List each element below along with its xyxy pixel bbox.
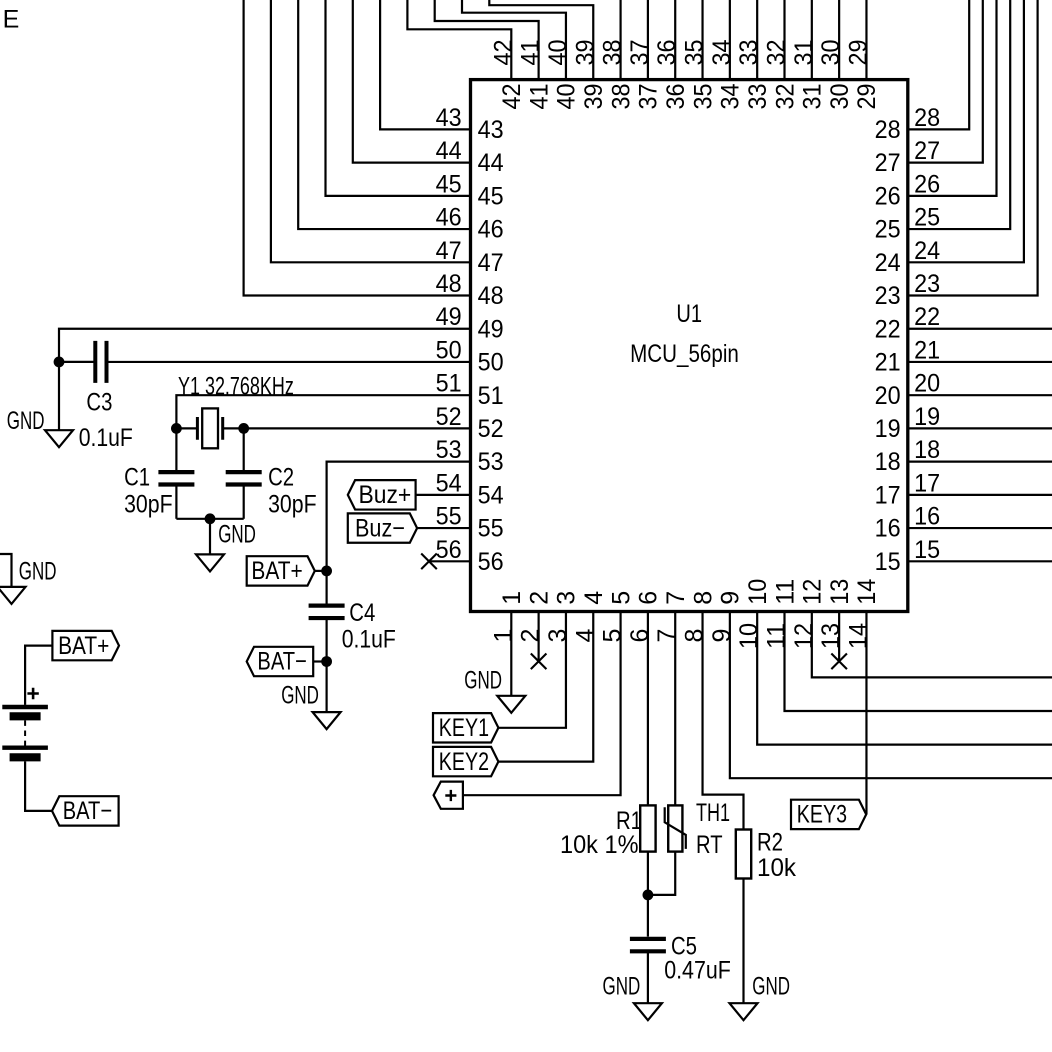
wire pin 19 to right edge [908,427,1052,429]
pin 23 number [914,270,940,298]
wire Y1 right to C2 [243,428,245,472]
pin 31 number [790,40,818,66]
resistor TH1 body [668,805,682,851]
pin 47 number [436,237,462,265]
pin 21 name [875,349,901,377]
pin 11 name [771,579,799,605]
wire BAT- flag to junction [313,660,326,662]
pin 46 number [436,204,462,232]
wire C1 to ground rail [175,485,177,519]
pin 22 number [914,303,940,331]
label R1 reference [616,807,642,835]
wire pin 1 to ground [510,612,512,696]
svg-text:55: 55 [436,503,462,531]
pin 17 name [875,481,901,509]
wire C5 to ground [647,952,649,1004]
svg-text:7: 7 [662,591,690,605]
IC U1 MCU_56pin body [471,80,908,612]
pin 1 name [498,591,526,605]
wire pin 44 to top edge [353,0,471,163]
battery plus sign [27,688,38,699]
svg-text:KEY1: KEY1 [439,714,489,742]
svg-text:23: 23 [914,270,940,298]
ground GND at R2 [730,973,791,1021]
wire pin 26 to top edge [908,0,997,196]
label C3 reference [86,388,112,416]
svg-text:26: 26 [914,170,940,198]
wire pin 49 to node C3/GND [59,329,471,362]
svg-text:25: 25 [875,216,901,244]
svg-text:48: 48 [478,282,504,310]
pin 12 number [790,623,818,649]
svg-text:10: 10 [744,579,772,605]
svg-text:42: 42 [498,84,526,110]
svg-text:16: 16 [875,515,901,543]
wire pin 9 to right edge [730,612,1052,779]
pin 50 name [478,349,504,377]
pin 18 number [914,436,940,464]
label C5 reference [671,933,697,961]
wire pin 35 to top edge [701,0,703,80]
svg-text:39: 39 [580,84,608,110]
label C4 reference [349,599,375,627]
ground GND at C5 [603,973,662,1021]
svg-text:C3: C3 [86,388,112,416]
svg-text:47: 47 [436,237,462,265]
pin 28 number [914,104,940,132]
pin 11 number [763,623,791,649]
svg-text:52: 52 [478,415,504,443]
pin 12 name [799,579,827,605]
svg-text:19: 19 [875,415,901,443]
pin 16 name [875,515,901,543]
svg-text:28: 28 [914,104,940,132]
junction Y1 left / C1 [171,423,182,434]
ground GND at C4 [281,682,340,730]
svg-text:32: 32 [763,40,791,66]
wire pin 52 to Y1 right [244,427,471,429]
wire pin 22 to right edge [908,328,1052,330]
svg-text:51: 51 [478,382,504,410]
pin 43 number [436,104,462,132]
wire C2 to ground rail [243,485,245,519]
battery cell stack [2,707,48,757]
pin 17 number [914,469,940,497]
svg-text:49: 49 [436,303,462,331]
svg-text:16: 16 [914,503,940,531]
wire pin 54 to Buz+ [416,494,471,496]
pin 13 number [817,623,845,649]
svg-text:11: 11 [771,579,799,605]
svg-text:6: 6 [635,591,663,605]
pin 55 name [478,515,504,543]
wire pin 51 to Y1 left [176,395,470,428]
svg-text:GND: GND [281,682,319,710]
label U1 reference [676,300,702,328]
ground GND at C1/C2 [196,521,256,572]
pin 8 name [689,591,717,605]
wire pin 36 to top edge [674,0,676,80]
capacitor C4 plates [309,606,345,618]
pin 33 name [744,84,772,110]
wire pin 20 to right edge [908,394,1052,396]
pin 3 number [544,629,572,643]
svg-text:29: 29 [853,84,881,110]
pin 19 number [914,403,940,431]
svg-text:0.1uF: 0.1uF [342,625,396,653]
svg-text:14: 14 [853,579,881,605]
svg-text:GND: GND [464,667,502,695]
ground GND at pin 1 [464,667,525,713]
pin 2 number [517,629,545,643]
resistor R1 body [640,805,655,851]
svg-text:20: 20 [875,382,901,410]
svg-text:40: 40 [544,40,572,66]
junction BAT- / C4 / GND [321,656,332,667]
label TH1 reference [696,799,730,827]
wire pin 13 stub [838,612,840,662]
wire junction to C5 [647,895,649,937]
wire C1/C2 ground rail [176,518,243,520]
svg-text:21: 21 [875,349,901,377]
global label KEY2 [433,747,498,776]
pin 37 name [635,84,663,110]
pin 54 number [436,469,462,497]
label C1 value 30pF [124,491,173,519]
svg-text:12: 12 [799,579,827,605]
svg-text:38: 38 [607,84,635,110]
svg-text:4: 4 [571,629,599,643]
pin 1 number [489,629,517,643]
svg-text:RT: RT [696,831,723,859]
svg-text:MCU_56pin: MCU_56pin [630,340,739,368]
svg-text:1: 1 [498,591,526,605]
wire pin 29 to top edge [865,0,867,80]
global label KEY3 [791,800,866,829]
global label Buz- [348,513,417,542]
pin 48 name [478,282,504,310]
pin 30 number [817,40,845,66]
pin 26 name [875,182,901,210]
svg-text:39: 39 [571,40,599,66]
wire pin 30 to top edge [838,0,840,80]
wire pin 41 to top edge [435,0,539,80]
wire pin 33 to top edge [756,0,758,80]
ground GND at sheet edge [0,557,57,604]
svg-text:11: 11 [763,623,791,649]
label R1 value 10k 1% [560,831,639,859]
pin 8 number [681,629,709,643]
svg-text:54: 54 [436,469,462,497]
pin 39 number [571,40,599,66]
svg-text:GND: GND [7,407,45,435]
pin 26 number [914,170,940,198]
pin 29 number [844,40,872,66]
svg-text:36: 36 [662,84,690,110]
wire junction to C4 [326,571,328,606]
svg-text:45: 45 [436,170,462,198]
svg-text:KEY2: KEY2 [439,748,489,776]
svg-text:2: 2 [525,591,553,605]
svg-text:52: 52 [436,403,462,431]
wire pin 46 to top edge [298,0,470,229]
svg-text:41: 41 [517,40,545,66]
svg-text:23: 23 [875,282,901,310]
pin 4 number [571,629,599,643]
pin 52 number [436,403,462,431]
svg-text:BAT+: BAT+ [251,557,302,585]
svg-text:51: 51 [436,370,462,398]
svg-text:37: 37 [635,84,663,110]
wire pin 7 to TH1 [674,612,676,806]
wire Y1 left to C1 [175,428,177,472]
junction C1/C2 ground [205,513,216,524]
svg-text:28: 28 [875,116,901,144]
svg-text:40: 40 [553,84,581,110]
pin 16 number [914,503,940,531]
wire R1 to node C5 [647,852,649,895]
wire pin 15 to right edge [908,560,1052,562]
svg-text:C4: C4 [349,599,375,627]
svg-text:30: 30 [817,40,845,66]
sheet frame row label E [3,5,20,33]
wire pin 38 to top edge [619,0,621,80]
svg-text:29: 29 [844,40,872,66]
svg-text:13: 13 [826,579,854,605]
global label KEY1 [433,713,498,742]
svg-text:15: 15 [875,548,901,576]
pin 39 name [580,84,608,110]
wire pin 55 to Buz- [417,527,471,529]
svg-text:10: 10 [735,623,763,649]
svg-text:TH1: TH1 [696,799,730,827]
ground GND at C3 [7,407,73,447]
pin 55 number [436,503,462,531]
wire pin 17 to right edge [908,494,1052,496]
pin 40 name [553,84,581,110]
pin 14 name [853,579,881,605]
svg-text:24: 24 [914,237,940,265]
wire pin 37 to top edge [647,0,649,80]
svg-text:42: 42 [489,40,517,66]
wire junction to ground [326,662,328,713]
pin 41 number [517,40,545,66]
crystal Y1 [176,408,243,448]
svg-text:56: 56 [436,536,462,564]
svg-text:C1: C1 [124,463,150,491]
pin 34 name [717,83,745,109]
svg-text:54: 54 [478,481,504,509]
svg-text:48: 48 [436,270,462,298]
pin 51 number [436,370,462,398]
capacitor C2 plates [226,472,262,484]
pin 29 name [853,84,881,110]
pin 45 name [478,182,504,210]
label C2 value 30pF [268,491,317,519]
svg-text:3: 3 [544,629,572,643]
svg-text:GND: GND [752,973,790,1001]
pin 27 name [875,149,901,177]
resistor R2 body [736,830,751,879]
svg-text:30pF: 30pF [268,491,317,519]
svg-text:46: 46 [436,204,462,232]
pin 52 name [478,415,504,443]
pin 15 name [875,548,901,576]
svg-text:35: 35 [689,84,717,110]
svg-text:34: 34 [708,39,736,65]
wire pin 8 to R2 [703,612,744,830]
svg-text:10k 1%: 10k 1% [560,831,639,859]
svg-text:20: 20 [914,370,940,398]
pin 13 name [826,579,854,605]
label Y1 reference and value 32.768KHz [178,373,294,401]
svg-text:30pF: 30pF [124,491,173,519]
svg-text:27: 27 [914,137,940,165]
svg-text:35: 35 [681,40,709,66]
svg-text:GND: GND [218,521,256,549]
pin 28 name [875,116,901,144]
svg-text:Buz+: Buz+ [359,481,412,509]
junction BAT+ / C4 / pin53 [321,566,332,577]
pin 36 name [662,84,690,110]
svg-text:41: 41 [525,84,553,110]
svg-text:43: 43 [478,116,504,144]
wire pin 18 to right edge [908,461,1052,463]
wire pin 11 to right edge [785,612,1052,712]
svg-text:BAT+: BAT+ [58,632,109,660]
pin 14 number [844,623,872,649]
svg-text:Y1 32.768KHz: Y1 32.768KHz [178,373,294,401]
thermistor TH1 mark [665,807,686,849]
svg-text:44: 44 [436,137,462,165]
wire pin 2 stub [538,612,540,662]
label R2 reference [757,829,783,857]
pin 23 name [875,282,901,310]
pin 56 number [436,536,462,564]
pin 20 name [875,382,901,410]
pin 9 number [708,629,736,643]
pin 6 name [635,591,663,605]
no-connect X pin 13 [831,654,847,670]
wire pin 14 to KEY3 [865,612,867,815]
global label BAT- at C4 [247,647,314,676]
svg-text:9: 9 [708,629,736,643]
label C3 value 0.1uF [79,424,133,452]
label U1 value MCU_56pin [630,340,739,368]
wire pin 39 to top edge [489,0,593,80]
svg-text:GND: GND [603,973,641,1001]
wire C4 to node BAT- [326,618,328,662]
svg-text:18: 18 [914,436,940,464]
pin 5 name [607,591,635,605]
svg-text:45: 45 [478,182,504,210]
svg-text:15: 15 [914,536,940,564]
wire pin 34 to top edge [729,0,731,80]
pin 37 number [626,40,654,66]
pin 34 number [708,39,736,65]
label R2 value 10k [757,854,796,882]
wire pin 5 to + supply flag [463,612,621,796]
label C4 value 0.1uF [342,625,396,653]
wire pin 45 to top edge [326,0,471,196]
svg-text:47: 47 [478,249,504,277]
wire pin 12 to right edge [812,612,1052,678]
svg-text:31: 31 [790,40,818,66]
svg-text:9: 9 [717,591,745,605]
pin 32 number [763,40,791,66]
wire BAT+ flag to junction [315,570,327,572]
svg-text:14: 14 [844,623,872,649]
svg-text:U1: U1 [676,300,702,328]
wire pin 56 stub [429,560,471,562]
pin 54 name [478,481,504,509]
wire pin 4 to KEY2 [498,612,593,762]
pin 10 name [744,579,772,605]
pin 38 number [599,40,627,66]
svg-text:13: 13 [817,623,845,649]
svg-text:5: 5 [599,629,627,643]
wire pin 21 to right edge [908,361,1052,363]
pin 24 number [914,237,940,265]
svg-text:55: 55 [478,515,504,543]
svg-text:44: 44 [478,149,504,177]
pin 25 name [875,216,901,244]
wire pin 42 to top edge [407,0,511,80]
pin 44 name [478,149,504,177]
wire pin 47 to top edge [271,0,471,262]
wire pin 53 to node BAT+ [327,462,471,571]
wire pin 31 to top edge [811,0,813,80]
pin 25 number [914,204,940,232]
wire pin 43 to top edge [380,0,470,129]
svg-text:33: 33 [744,84,772,110]
svg-text:53: 53 [478,448,504,476]
global label BAT+ at battery [52,631,119,660]
pin 15 number [914,536,940,564]
global label BAT+ at C4 [247,556,315,585]
svg-text:53: 53 [436,436,462,464]
junction Y1 right / C2 / pin52 [238,423,249,434]
global label Buz+ [348,480,416,509]
pin 18 name [875,448,901,476]
svg-text:27: 27 [875,149,901,177]
pin 21 number [914,336,940,364]
wire pin 25 to top edge [908,0,1010,229]
wire pin 10 to right edge [757,612,1052,745]
pin 35 name [689,84,717,110]
wire C3 to junction [59,361,95,363]
no-connect X pin 56 [421,553,437,569]
svg-text:0.47uF: 0.47uF [664,956,731,984]
svg-text:KEY3: KEY3 [797,801,847,829]
wire pin 32 to top edge [783,0,785,80]
wire pin 27 to top edge [908,0,983,163]
svg-text:49: 49 [478,315,504,343]
svg-text:19: 19 [914,403,940,431]
svg-text:24: 24 [875,249,901,277]
pin 2 name [525,591,553,605]
svg-text:37: 37 [626,40,654,66]
svg-text:50: 50 [436,336,462,364]
global label BAT- at battery [52,796,119,825]
svg-text:8: 8 [681,629,709,643]
pin 4 name [580,591,608,605]
pin 53 name [478,448,504,476]
svg-text:26: 26 [875,182,901,210]
pin 36 number [653,40,681,66]
svg-text:C2: C2 [268,463,294,491]
capacitor C3 plates [95,341,106,383]
